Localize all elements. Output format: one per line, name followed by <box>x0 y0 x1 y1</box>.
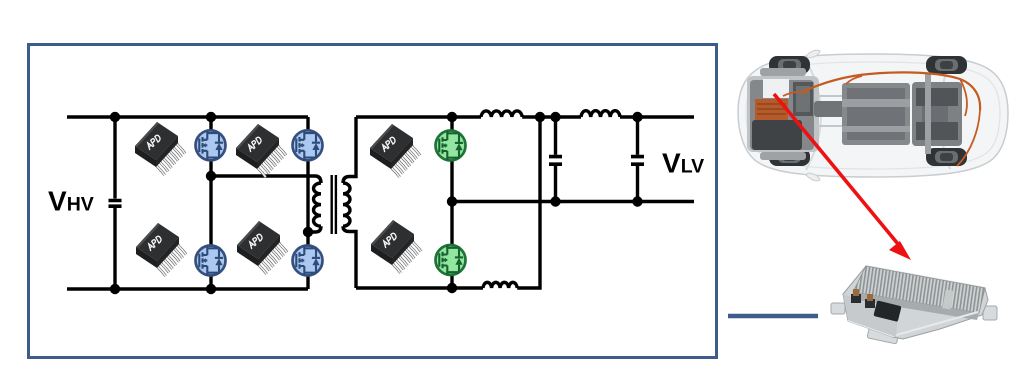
wire secondary bottom down <box>343 226 356 288</box>
heatsink fins top <box>853 266 985 313</box>
fin end band <box>851 292 979 320</box>
capacitor C2 plates <box>549 157 562 165</box>
node dot return Q6 <box>447 196 457 206</box>
package U1 <box>135 122 185 175</box>
node dot HV top left <box>110 112 120 122</box>
package U6 <box>371 220 421 273</box>
wire HV bottom rail <box>67 287 308 290</box>
connector <box>873 300 901 322</box>
wire cap C3 top lead <box>636 117 639 155</box>
battery block <box>842 83 910 145</box>
wire phase2 riser <box>517 117 540 288</box>
node dot return C2 <box>550 196 560 206</box>
wire cap C2 top lead <box>554 117 557 155</box>
dc-dc converter module illustration <box>831 266 997 344</box>
package U3 <box>136 223 186 276</box>
inductor L1 <box>481 111 522 117</box>
mosfet Q1 <box>196 130 226 160</box>
windshield line <box>806 60 821 170</box>
red arrow <box>774 94 911 260</box>
mounting tab bottom <box>867 327 899 344</box>
wire LV return rail <box>452 200 694 203</box>
base flange highlight <box>848 312 978 336</box>
wire return rail to Q6 drain <box>450 202 453 246</box>
transformer T1 core <box>332 175 336 234</box>
wire node A to Q2 drain <box>209 176 212 246</box>
mosfet Q2 <box>196 246 226 276</box>
terminal stud 2 <box>865 294 875 308</box>
car body shell <box>738 54 1008 177</box>
wire cap C2 bottom lead <box>554 166 557 202</box>
blue connector line <box>728 314 818 318</box>
wire node A to transformer primary <box>211 176 321 183</box>
rear drive unit <box>912 82 962 146</box>
wire secondary top to LV rail <box>343 117 356 183</box>
node dot LV rail C2 <box>550 112 560 122</box>
inductor L2 <box>581 111 620 117</box>
wire HV top rail <box>67 115 308 118</box>
node dot LV rail phase2 <box>535 112 545 122</box>
node dot LV rail C3 <box>632 112 642 122</box>
rear crossmember <box>925 74 931 154</box>
terminal stud 1 <box>851 289 861 303</box>
wire Q3 source to Q4 drain <box>306 160 309 246</box>
transformer T1 secondary winding <box>343 183 350 226</box>
mosfet Q5 <box>436 131 466 161</box>
capacitor C3 plates <box>631 157 644 165</box>
wire LV top rail seg2 <box>522 115 581 118</box>
wire Q3 drain <box>306 117 309 131</box>
wire LV top rail seg3 <box>620 115 694 118</box>
wire input cap top <box>113 117 116 199</box>
node dot LV rail Q5 <box>447 112 457 122</box>
car chassis illustration <box>738 50 1008 181</box>
package U2 <box>236 124 286 177</box>
wire Q4 source <box>306 276 309 290</box>
mounting tab left <box>831 303 845 314</box>
wire Q5 source to return rail <box>450 161 453 202</box>
HV cable orange <box>802 72 980 110</box>
node dot HV bottom legA <box>206 284 216 294</box>
package U5 <box>370 124 420 177</box>
wire Q1 drain <box>209 117 212 131</box>
node dot return C3 <box>632 196 642 206</box>
front power unit <box>750 80 814 150</box>
package U4 <box>237 221 287 274</box>
front subframe light <box>747 76 819 152</box>
wire Q6 source to bottom line <box>450 275 453 288</box>
rear window line <box>940 61 950 169</box>
node dot HV bottom left <box>110 284 120 294</box>
wire Q5 drain <box>450 117 453 131</box>
drive shaft <box>814 101 848 117</box>
schematic frame <box>29 45 717 358</box>
heatsink back edge highlight <box>866 266 985 288</box>
wheel front top <box>769 56 810 74</box>
mounting tab right <box>983 306 997 320</box>
wire primary bottom to leg B <box>308 226 321 232</box>
wire LV top rail seg1 <box>356 115 481 118</box>
fin gap <box>942 289 953 309</box>
side mirrors <box>806 50 820 58</box>
wheel rear top <box>926 56 967 74</box>
wheel rear bottom <box>926 148 967 166</box>
node dot bottom line Q6 <box>447 283 457 293</box>
wire Q2 source <box>209 276 212 290</box>
converter body silhouette <box>843 266 988 339</box>
wire cap C3 bottom lead <box>636 166 639 202</box>
mosfet Q6 <box>436 245 466 275</box>
node dot HV top legA <box>206 112 216 122</box>
node dot A <box>206 171 216 181</box>
wheel front bottom <box>769 148 810 166</box>
wire Q1 source to node A <box>209 160 212 176</box>
transformer T1 primary winding <box>314 183 322 226</box>
inductor L3 <box>483 282 517 288</box>
front face <box>843 294 898 337</box>
mosfet Q3 <box>293 130 323 160</box>
mosfet Q4 <box>293 246 323 276</box>
node dot primary bottom <box>303 227 313 237</box>
capacitor C1 plates <box>109 201 122 207</box>
wire input cap bottom <box>113 206 116 289</box>
wire LV bottom line <box>356 286 483 289</box>
front crossmember <box>760 68 806 76</box>
